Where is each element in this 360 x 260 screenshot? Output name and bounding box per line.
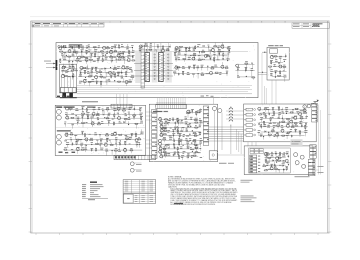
- value label: [185, 116, 187, 119]
- wire W281: [187, 143, 189, 146]
- wire W267: [179, 135, 181, 138]
- wire W210: [141, 129, 143, 134]
- node N56: [275, 161, 278, 164]
- value label: [128, 118, 131, 121]
- wire W57: [104, 69, 106, 72]
- value label: [275, 159, 278, 162]
- resistor R227: [179, 133, 180, 137]
- value label: [115, 142, 117, 145]
- wire W115: [183, 59, 185, 62]
- wire W229: [116, 144, 118, 147]
- diode D141: [186, 140, 188, 142]
- wire W179: [133, 112, 135, 115]
- value label: [197, 65, 199, 68]
- wire W322: [261, 118, 305, 120]
- value label: [138, 141, 140, 144]
- transistor Q105: [117, 54, 121, 58]
- wire W319: [279, 114, 281, 117]
- wire W67: [117, 72, 119, 76]
- node N47: [198, 111, 201, 114]
- value label: [121, 43, 123, 46]
- capacitor C141: [173, 130, 175, 133]
- diode D140: [187, 135, 189, 137]
- resistor R117: [75, 60, 79, 61]
- wire W215: [96, 140, 98, 144]
- wire W247: [160, 123, 162, 126]
- resistor R271: [278, 157, 282, 158]
- wire W356: [263, 137, 265, 140]
- value label: [291, 116, 294, 119]
- resistor R215: [177, 118, 178, 122]
- wire W121: [176, 66, 226, 68]
- value label: [269, 122, 272, 125]
- wire W346: [261, 131, 306, 133]
- resistor R243: [193, 155, 197, 156]
- value label: [81, 114, 84, 117]
- wire W360: [266, 152, 289, 154]
- capacitor C140: [175, 127, 177, 130]
- value label: [200, 120, 203, 123]
- wire W230: [136, 145, 138, 148]
- resistor R116: [60, 59, 61, 63]
- wire W33: [63, 59, 131, 61]
- value label: [123, 56, 125, 59]
- value label: [175, 56, 178, 59]
- wire W255: [182, 128, 184, 131]
- value label: [155, 49, 157, 52]
- wire W335: [295, 123, 297, 125]
- wire W100: [228, 48, 230, 51]
- resistor R252: [303, 112, 307, 113]
- value label: [183, 135, 185, 138]
- value label: [150, 44, 152, 47]
- resistor R171: [274, 56, 278, 57]
- node N13: [113, 79, 116, 82]
- wire W293: [164, 152, 166, 155]
- table merged stamp cell: [124, 194, 134, 203]
- wire W81: [106, 82, 108, 85]
- value label: [123, 107, 126, 110]
- value label: [267, 106, 269, 109]
- value label: [199, 108, 202, 111]
- wire W135: [245, 64, 247, 70]
- node N20: [206, 65, 209, 68]
- label EQ AMP CH2: [57, 130, 71, 131]
- value label: [168, 154, 171, 157]
- wire W310: [272, 109, 274, 113]
- transistor Q164: [270, 167, 274, 171]
- value label: [265, 151, 267, 154]
- value label: [168, 143, 170, 146]
- value label: [185, 137, 187, 140]
- diode D117: [175, 58, 177, 60]
- resistor R160: [214, 58, 215, 62]
- value label: [90, 137, 93, 140]
- value label: [122, 64, 124, 67]
- value label: [173, 145, 175, 148]
- value label: [265, 114, 267, 117]
- wire W71: [89, 73, 91, 77]
- resistor R178: [86, 108, 87, 112]
- header connector strip J6: [156, 105, 187, 109]
- diode D149: [278, 117, 280, 119]
- wire W350: [277, 133, 279, 136]
- value label: [175, 47, 178, 50]
- value label: [190, 146, 192, 149]
- node N30: [127, 123, 130, 126]
- resistor R231: [192, 141, 196, 142]
- wire W331: [259, 122, 307, 124]
- resistor R276: [264, 170, 268, 171]
- value label: [227, 53, 229, 56]
- wire W311: [278, 106, 280, 109]
- resistor R106: [72, 51, 76, 52]
- vertical feed wires: [66, 51, 226, 60]
- wire W275: [162, 143, 201, 145]
- resistor R217: [164, 123, 168, 124]
- choke coil L1: [229, 106, 233, 126]
- resistor R265: [300, 131, 301, 135]
- label POWER AMP: [69, 44, 84, 48]
- value label: [178, 53, 181, 56]
- value label: [245, 60, 248, 63]
- wire W330: [306, 115, 308, 119]
- node N25: [101, 109, 104, 112]
- node N35: [138, 143, 141, 146]
- value label: [286, 132, 289, 135]
- wire W90: [64, 75, 76, 77]
- wire W130: [173, 73, 175, 76]
- value label: [281, 108, 283, 111]
- wire CH1 to protector board: [262, 53, 266, 104]
- value label: [71, 63, 73, 66]
- value label: [200, 139, 203, 142]
- wire W131: [192, 74, 194, 78]
- wire W294: [177, 154, 179, 157]
- wire W126: [201, 67, 203, 70]
- wire W173: [87, 114, 89, 117]
- wire W264: [199, 132, 201, 135]
- value label: [93, 106, 96, 109]
- value label: [79, 82, 81, 85]
- value label: [169, 46, 171, 49]
- wire W92: [177, 46, 229, 48]
- value label: [117, 52, 120, 55]
- header connector bar J5: [111, 104, 132, 108]
- capacitor C120: [188, 66, 190, 69]
- resistor R245: [196, 111, 197, 115]
- value label: [218, 48, 221, 51]
- value label: [159, 149, 162, 152]
- wire W214: [85, 139, 87, 142]
- value label: [273, 124, 276, 127]
- legend symbol list: [82, 184, 104, 197]
- wire W202: [66, 135, 68, 137]
- resistor R109: [113, 51, 117, 52]
- capacitor C158: [288, 155, 290, 158]
- wire W187: [125, 119, 127, 123]
- capacitor C112: [96, 81, 98, 84]
- wire W113: [175, 59, 230, 61]
- value label: [295, 123, 297, 126]
- wire W37: [76, 61, 78, 64]
- resistor R130: [84, 70, 85, 74]
- wire W220: [126, 139, 128, 142]
- value label: [64, 146, 67, 149]
- wire W141: [237, 76, 254, 78]
- output module IC1: [145, 53, 150, 82]
- node N23: [283, 60, 286, 63]
- wire W305: [199, 108, 201, 111]
- wire W191: [65, 124, 67, 127]
- value label: [159, 145, 161, 148]
- wire W96: [208, 47, 210, 52]
- value label: [117, 74, 119, 77]
- node N28: [103, 116, 106, 119]
- value label: [67, 68, 69, 71]
- wire W154: [279, 72, 281, 74]
- value label: [201, 72, 203, 75]
- value label: [117, 65, 120, 68]
- value label: [125, 73, 127, 76]
- transistor Q154: [303, 109, 307, 113]
- resistor R162: [194, 65, 195, 69]
- value label: [290, 128, 292, 131]
- resistor R230: [179, 138, 180, 142]
- value label: [97, 112, 100, 115]
- input transistor Q204: [57, 140, 62, 145]
- value label: [68, 75, 71, 78]
- value label: [199, 132, 201, 135]
- value label: [199, 147, 201, 150]
- wire W22: [122, 54, 124, 58]
- wire W254: [164, 128, 166, 132]
- value label: [199, 109, 201, 112]
- wire W155: [283, 66, 285, 71]
- value label: [122, 50, 125, 53]
- wire W146: [285, 53, 287, 56]
- value label: [63, 51, 66, 54]
- value label: [299, 122, 301, 125]
- power transformer T1: [270, 49, 278, 53]
- equalizer amplifier board outline: [55, 105, 145, 155]
- wire W352: [295, 129, 297, 132]
- value label: [197, 43, 200, 46]
- wire W3: [78, 45, 80, 47]
- resistor R111: [67, 56, 71, 57]
- value label: [272, 114, 275, 117]
- wire W103: [188, 48, 190, 50]
- wire W118: [217, 56, 219, 60]
- pin numbers row: [157, 102, 186, 103]
- fuse F1: [130, 162, 141, 166]
- wire W365: [264, 156, 285, 158]
- transistor Q101: [102, 46, 106, 50]
- value label: [181, 154, 184, 157]
- resistor R209: [63, 149, 67, 150]
- value label: [82, 45, 85, 48]
- transistor Q111: [121, 66, 125, 70]
- value label: [214, 51, 216, 54]
- wire W302: [191, 111, 193, 113]
- value label: [245, 66, 248, 69]
- wire W357: [269, 135, 271, 138]
- value label: [131, 71, 133, 74]
- value label: [106, 50, 108, 53]
- wire W285: [160, 146, 162, 149]
- capacitor C139: [175, 121, 177, 124]
- wire W248: [168, 123, 170, 126]
- value label: [115, 136, 117, 139]
- transistor Q151: [159, 155, 163, 159]
- wire W133: [226, 73, 228, 76]
- value label: [114, 66, 117, 69]
- switch inner board outline: [249, 148, 291, 173]
- resistor R188: [106, 118, 110, 119]
- value label: [89, 133, 91, 136]
- resistor R264: [286, 132, 290, 133]
- transistor Q148: [158, 142, 162, 146]
- wire W223: [66, 145, 68, 149]
- value label: [209, 49, 212, 52]
- resistor R164: [225, 67, 229, 68]
- value label: [72, 72, 74, 75]
- switch transistor Q301: [212, 106, 216, 110]
- value label: [125, 112, 127, 115]
- value label: [178, 140, 181, 143]
- wire W134: [239, 64, 255, 66]
- value label: [272, 116, 274, 119]
- transistor Q114: [83, 79, 87, 83]
- resistor R161: [177, 67, 181, 68]
- wire W359: [286, 136, 288, 140]
- wire W190: [67, 122, 141, 124]
- node N50: [281, 117, 284, 120]
- capacitor C101: [114, 45, 116, 48]
- value label: [98, 45, 100, 48]
- wire W288: [187, 144, 189, 148]
- value label: [221, 44, 224, 47]
- resistor R148: [195, 45, 196, 49]
- resistor R256: [264, 121, 265, 125]
- switch header cells: [250, 149, 263, 154]
- resistor R222: [194, 127, 198, 128]
- value label: [121, 45, 124, 48]
- table cell entries: [125, 181, 153, 202]
- wire W148: [278, 63, 280, 67]
- wire W239: [124, 150, 126, 154]
- wire W232: [66, 149, 142, 151]
- value label: [93, 108, 96, 111]
- value label: [300, 115, 303, 118]
- resistor R216: [194, 120, 198, 121]
- capacitor C138: [172, 118, 174, 121]
- wire W183: [77, 119, 79, 123]
- value label: [117, 67, 119, 70]
- value label: [207, 53, 209, 56]
- resistor R240: [194, 152, 198, 153]
- wire W35: [68, 62, 70, 67]
- transistor Q118: [175, 46, 179, 50]
- wire W7: [114, 47, 116, 51]
- value label: [71, 45, 73, 48]
- wire W256: [187, 124, 189, 127]
- node N29: [76, 121, 79, 124]
- resistor R142: [62, 66, 66, 67]
- terminal strip J12: [308, 159, 315, 162]
- value label: [92, 78, 95, 81]
- value label: [178, 56, 180, 59]
- diode D126: [125, 115, 127, 117]
- transistor Q107: [127, 58, 131, 62]
- value label: [281, 126, 284, 129]
- border frame top line: [31, 20, 330, 22]
- capacitor C126: [82, 107, 84, 110]
- value label: [294, 115, 297, 118]
- wire W147: [271, 62, 284, 64]
- resistor R273: [277, 160, 281, 161]
- resistor R228: [194, 135, 198, 136]
- transistor Q161: [264, 152, 268, 156]
- heatsink shading: [135, 51, 172, 84]
- node N51: [278, 121, 281, 124]
- value label: [266, 164, 268, 167]
- wire W196: [98, 121, 100, 124]
- wire W26: [72, 53, 74, 56]
- value label: [129, 138, 131, 141]
- notes emphasis mark: [174, 203, 183, 204]
- wire W176: [103, 110, 105, 115]
- value label: [103, 76, 106, 79]
- value label: [150, 42, 152, 45]
- resistor R226: [163, 134, 167, 135]
- value label: [284, 74, 287, 77]
- value label: [169, 135, 172, 138]
- value label: [100, 73, 102, 76]
- resistor R205: [76, 141, 77, 145]
- value label: [212, 47, 214, 50]
- value label: [267, 124, 270, 127]
- value label: [119, 120, 121, 123]
- value label: [160, 132, 162, 135]
- value label: [189, 137, 191, 140]
- capacitor C119: [210, 57, 212, 60]
- wire W14: [76, 53, 78, 56]
- wire W75: [131, 77, 133, 80]
- value label: [90, 52, 93, 55]
- wire W344: [292, 123, 294, 127]
- value label: [165, 120, 167, 123]
- resistor R101: [79, 45, 80, 49]
- wire W36: [72, 61, 74, 63]
- wire W273: [180, 141, 182, 145]
- wire W143: [272, 56, 285, 58]
- value label: [206, 72, 209, 75]
- resistor R255: [300, 118, 304, 119]
- value label: [283, 70, 285, 73]
- resistor R236: [177, 146, 178, 150]
- value label: [193, 64, 196, 67]
- capacitor C144: [173, 143, 175, 146]
- value label: [282, 161, 285, 164]
- wire power supply down feed: [272, 80, 276, 104]
- wire W144: [275, 56, 277, 59]
- diode D143: [187, 147, 189, 149]
- wire W314: [292, 110, 294, 114]
- diode D147: [286, 109, 288, 111]
- capacitor C123: [237, 68, 239, 71]
- value label: [101, 120, 103, 123]
